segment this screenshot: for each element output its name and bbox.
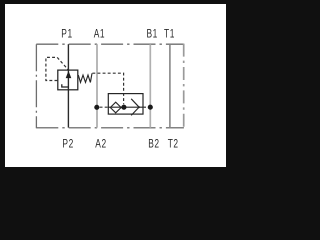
svg-text:T1: T1 — [164, 28, 175, 41]
svg-text:B2: B2 — [148, 138, 159, 151]
svg-text:P1: P1 — [61, 28, 72, 41]
svg-text:A1: A1 — [94, 28, 105, 41]
svg-text:P2: P2 — [62, 138, 73, 151]
svg-text:A2: A2 — [95, 138, 106, 151]
svg-text:B1: B1 — [147, 28, 158, 41]
svg-text:T2: T2 — [168, 138, 179, 151]
